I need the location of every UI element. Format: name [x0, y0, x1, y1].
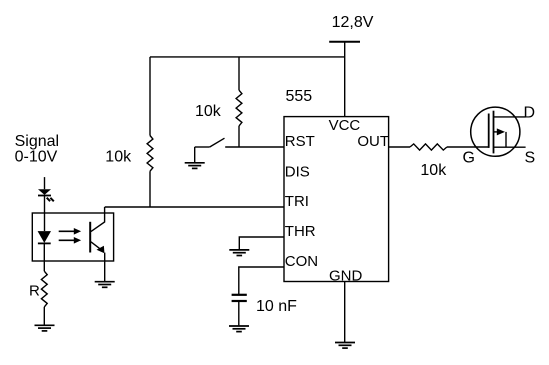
resistor 10k (gate)	[410, 144, 447, 150]
svg-text:10k: 10k	[195, 103, 222, 120]
svg-text:R: R	[29, 283, 40, 300]
ground (R)	[35, 325, 55, 331]
ground (switch)	[185, 163, 205, 169]
transistor Q1 MOSFET circle	[471, 107, 520, 156]
capacitor C1 10 nF	[232, 295, 247, 301]
LED light marks	[47, 198, 54, 202]
optocoupler LED	[38, 231, 51, 243]
wire rail to resistor R1	[149, 57, 151, 136]
svg-text:10k: 10k	[105, 149, 132, 166]
svg-text:10 nF: 10 nF	[256, 298, 297, 315]
svg-text:THR: THR	[285, 223, 316, 240]
wire GND pin to ground	[344, 282, 346, 343]
phototransistor emitter	[91, 242, 102, 251]
optocoupler light arrow 1	[59, 230, 75, 232]
wire CON to capacitor	[239, 267, 284, 294]
optocoupler U2 box	[32, 213, 113, 261]
ground (THR)	[229, 250, 249, 256]
svg-text:DIS: DIS	[285, 164, 310, 181]
svg-text:S: S	[525, 149, 536, 166]
svg-text:10k: 10k	[420, 162, 447, 179]
svg-text:555: 555	[286, 88, 313, 105]
wire R2 to RST net	[238, 126, 240, 147]
svg-text:0-10V: 0-10V	[15, 148, 58, 165]
wire supply to VCC pin	[344, 42, 346, 117]
wire emitter to ground	[104, 253, 106, 282]
svg-text:VCC: VCC	[329, 117, 361, 134]
wire OUT to resistor	[389, 146, 410, 148]
resistor 10k (switch pullup)	[236, 90, 242, 126]
svg-text:12,8V: 12,8V	[332, 14, 374, 31]
ground (emitter)	[95, 282, 115, 288]
wire R to ground	[43, 307, 45, 325]
svg-text:TRI: TRI	[285, 193, 309, 210]
op-amp U1 555 box	[284, 117, 389, 282]
phototransistor collector	[91, 207, 105, 232]
MOSFET body to source	[505, 132, 507, 147]
wire capacitor to ground	[238, 301, 240, 325]
svg-text:CON: CON	[285, 253, 318, 270]
ground (555 GND)	[335, 343, 355, 349]
svg-text:OUT: OUT	[357, 133, 389, 150]
switch lever	[210, 138, 225, 147]
MOSFET channel bar	[493, 111, 495, 154]
MOSFET gate bar	[488, 114, 490, 148]
wire THR to ground	[239, 237, 284, 249]
phototransistor base bar	[89, 222, 91, 253]
optocoupler light arrow 2	[59, 239, 75, 241]
wire resistor to gate	[447, 146, 489, 148]
wire switch to RST pin	[225, 146, 284, 148]
wire switch to ground	[194, 147, 196, 162]
wire R1 to TRI net	[149, 171, 151, 207]
wire signal input	[44, 177, 46, 189]
ground (capacitor)	[229, 326, 249, 332]
svg-text:G: G	[463, 149, 475, 166]
resistor R	[41, 271, 47, 307]
LED D1 (indicator)	[38, 189, 51, 195]
wire rail to resistor R2	[238, 57, 240, 90]
wire top rail	[150, 56, 345, 58]
MOSFET source lead	[494, 146, 526, 148]
MOSFET drain lead	[494, 116, 526, 118]
MOSFET body arrow	[494, 131, 498, 133]
wire TRI net	[105, 206, 284, 208]
resistor 10k (left, to TRI)	[147, 136, 153, 172]
svg-text:RST: RST	[285, 133, 315, 150]
wire LED cathode to R	[43, 243, 45, 271]
svg-text:GND: GND	[329, 268, 363, 285]
switch fixed contact (left)	[195, 146, 210, 148]
svg-text:D: D	[524, 105, 536, 122]
supply bar 12,8V	[329, 41, 360, 43]
wire LED to optocoupler LED	[44, 196, 46, 232]
